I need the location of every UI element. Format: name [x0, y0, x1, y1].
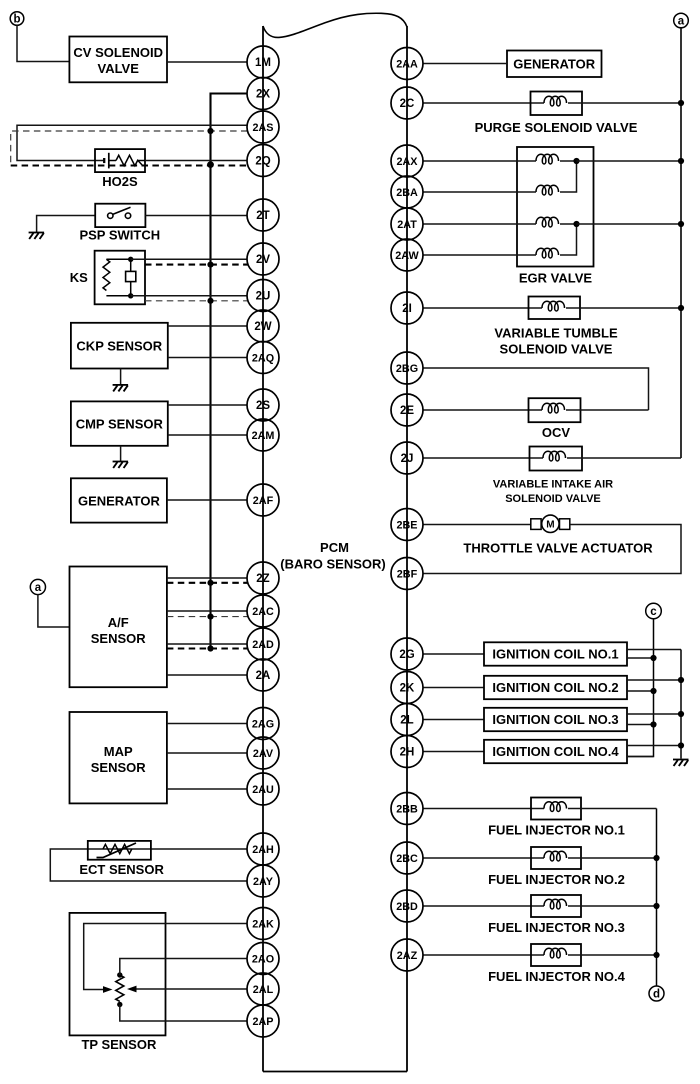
svg-text:2AV: 2AV — [253, 748, 274, 760]
junction: 2Z shield to drain bus — [207, 580, 213, 586]
junction: coil 3 trigger at c rail — [650, 721, 656, 727]
wire a to A/F sensor — [38, 594, 70, 627]
wire CMP to pin 2AM — [168, 434, 248, 436]
svg-text:IGNITION COIL NO.1: IGNITION COIL NO.1 — [492, 647, 618, 662]
wire pin 2AP to TP bottom — [120, 1005, 248, 1022]
component throttle valve actuator (motor M) — [531, 515, 570, 532]
svg-text:2C: 2C — [400, 98, 415, 110]
svg-text:MAP: MAP — [104, 744, 133, 759]
svg-text:IGNITION COIL NO.2: IGNITION COIL NO.2 — [492, 680, 618, 695]
svg-text:2Z: 2Z — [256, 573, 269, 585]
label KS — [70, 270, 88, 285]
component OCV coil — [529, 398, 581, 422]
junction: coil 2 trigger at c rail — [650, 688, 656, 694]
svg-text:2T: 2T — [256, 210, 269, 222]
wire: shield drain bus — [211, 94, 248, 649]
junction: coil 3 supply at ground rail — [678, 711, 684, 717]
component TP SENSOR (potentiometer) — [70, 913, 166, 1036]
svg-text:2AC: 2AC — [252, 606, 274, 618]
pin 2AM — [247, 419, 279, 451]
wire FUEL INJECTOR NO.1 to common rail — [568, 808, 657, 810]
wire pin 2AW to EGR coil 4 — [423, 254, 536, 256]
junction: coil 1 trigger at c rail — [650, 655, 656, 661]
svg-text:TP SENSOR: TP SENSOR — [81, 1037, 157, 1052]
pin 2BB — [391, 793, 423, 825]
junction: variable tumble at far-right feed — [678, 305, 684, 311]
svg-text:2K: 2K — [400, 683, 415, 695]
wire EGR pair2 to far-right feed — [577, 223, 682, 225]
pin 2AU — [247, 773, 279, 805]
pin 2BG — [391, 352, 423, 384]
svg-text:2BB: 2BB — [396, 803, 418, 815]
wire: PCM left connector bus — [262, 26, 264, 1072]
wire pin 2J to variable intake air solenoid — [423, 457, 543, 459]
label TP SENSOR — [81, 1037, 157, 1052]
component GENERATOR (right) — [507, 51, 602, 78]
svg-text:2U: 2U — [256, 291, 271, 303]
pin 2J — [391, 442, 423, 474]
junction: EGR pair2 at far-right feed — [678, 221, 684, 227]
svg-text:SENSOR: SENSOR — [91, 631, 147, 646]
component IGNITION COIL NO.3 — [484, 708, 627, 731]
svg-text:2H: 2H — [400, 747, 415, 759]
label FUEL INJECTOR NO.4 — [488, 969, 626, 984]
label FUEL INJECTOR NO.1 — [488, 823, 625, 838]
wire pin to IGNITION COIL NO.3 — [423, 719, 484, 721]
wire variable tumble solenoid to far-right feed — [566, 307, 681, 309]
pin 2BE — [391, 509, 423, 541]
wire EGR pair1 to far-right feed — [577, 160, 682, 162]
pin 2C — [391, 87, 423, 119]
svg-text:THROTTLE VALVE ACTUATOR: THROTTLE VALVE ACTUATOR — [463, 541, 653, 556]
svg-text:2AD: 2AD — [252, 639, 274, 651]
component HO2S (battery + resistor) — [95, 149, 145, 172]
svg-text:IGNITION COIL NO.3: IGNITION COIL NO.3 — [492, 712, 618, 727]
svg-text:2V: 2V — [256, 254, 270, 266]
wire pin 2BG to OCV return — [423, 368, 649, 410]
wire MAP to pin 2AG — [167, 723, 248, 725]
component EGR VALVE (4 coils) — [517, 147, 594, 267]
svg-text:2AP: 2AP — [252, 1016, 273, 1028]
svg-text:FUEL INJECTOR NO.2: FUEL INJECTOR NO.2 — [488, 872, 625, 887]
ground (CKP sensor) — [113, 385, 129, 392]
wire shield 2AS (dashed) — [11, 131, 248, 166]
svg-text:VARIABLE TUMBLE: VARIABLE TUMBLE — [494, 326, 618, 341]
component CV SOLENOID VALVE — [69, 37, 167, 83]
wire MAP to pin 2AU — [167, 788, 248, 790]
svg-text:2G: 2G — [399, 649, 414, 661]
svg-text:2AZ: 2AZ — [397, 950, 418, 962]
svg-text:2L: 2L — [400, 715, 413, 727]
node c — [646, 603, 662, 619]
junction: coil 4 supply at ground rail — [678, 742, 684, 748]
svg-text:2A: 2A — [256, 670, 271, 682]
svg-text:2AO: 2AO — [252, 953, 274, 965]
wire KS to pin 2U — [131, 295, 248, 297]
wire pin 2E to OCV — [423, 409, 542, 411]
svg-text:2AM: 2AM — [252, 430, 275, 442]
pin 2AC — [247, 595, 279, 627]
pin 2E — [391, 394, 423, 426]
svg-text:2X: 2X — [256, 89, 270, 101]
svg-text:PCM: PCM — [320, 540, 349, 555]
wire pin 2AA to generator — [423, 63, 507, 65]
wire IGNITION COIL NO.2 supply stub — [627, 679, 681, 681]
label ECT SENSOR — [79, 862, 164, 877]
wire EGR coil1/coil2 common — [560, 161, 577, 192]
svg-text:FUEL INJECTOR NO.4: FUEL INJECTOR NO.4 — [488, 969, 626, 984]
svg-text:a: a — [678, 16, 685, 28]
wire purge solenoid to far-right feed — [568, 102, 681, 104]
ground (PSP switch) — [29, 233, 44, 240]
pin 2AT — [391, 208, 423, 240]
wire pin to FUEL INJECTOR NO.2 — [423, 857, 544, 859]
label PURGE SOLENOID VALVE — [475, 120, 638, 135]
svg-text:2J: 2J — [401, 453, 414, 465]
wire FUEL INJECTOR NO.2 to common rail — [568, 857, 657, 859]
svg-text:2BA: 2BA — [396, 187, 418, 199]
ground (ignition coils) — [673, 760, 689, 767]
svg-text:2BE: 2BE — [396, 519, 417, 531]
component purge solenoid coil — [531, 92, 583, 116]
pin 2AP — [247, 1005, 279, 1037]
label VARIABLE INTAKE AIR SOLENOID VALVE — [493, 479, 613, 506]
wire generator to pin 2AF — [167, 499, 248, 501]
wire A/F to pin 2AC — [167, 610, 248, 612]
svg-text:2BC: 2BC — [396, 853, 418, 865]
pin 2BA — [391, 176, 423, 208]
pin 2AF — [247, 484, 279, 516]
svg-text:a: a — [35, 582, 42, 594]
pin 2AK — [247, 908, 279, 940]
arrow into TP resistor (from 2AL) — [127, 986, 137, 993]
pin 2V — [247, 243, 279, 275]
wire IGNITION COIL NO.4 trigger stub — [627, 756, 654, 758]
pin 2AO — [247, 943, 279, 975]
wire pin to FUEL INJECTOR NO.4 — [423, 954, 544, 956]
svg-text:b: b — [13, 14, 20, 26]
svg-text:2AK: 2AK — [252, 918, 274, 930]
wire CKP ground stub — [120, 369, 122, 385]
component ECT SENSOR (thermistor) — [88, 841, 151, 860]
wire HO2S to pin 2Q — [145, 160, 248, 162]
wire fuel injector common rail — [656, 809, 658, 986]
wire throttle actuator loop to pin 2BF — [423, 525, 681, 574]
wire IGNITION COIL NO.3 supply stub — [627, 713, 681, 715]
wire IGNITION COIL NO.4 supply stub — [627, 745, 681, 747]
label PCM (BARO SENSOR) — [280, 540, 385, 572]
wire CKP to pin 2AQ — [168, 357, 248, 359]
junction: 2V shield to drain bus — [207, 262, 213, 268]
wire pin to FUEL INJECTOR NO.1 — [423, 808, 544, 810]
wire: wavy tie line across PCM top — [263, 13, 407, 37]
label EGR VALVE — [519, 271, 593, 286]
svg-text:HO2S: HO2S — [102, 174, 138, 189]
wire A/F shield 2AD (dashed) — [167, 647, 248, 649]
pin 2AG — [247, 708, 279, 740]
component FUEL INJECTOR NO.1 coil — [531, 798, 581, 820]
wire pin 2I to variable tumble solenoid — [423, 307, 542, 309]
wire 2AS loop to HO2S — [17, 125, 248, 160]
svg-text:VALVE: VALVE — [97, 61, 139, 76]
svg-text:1M: 1M — [255, 57, 271, 69]
pin 2AV — [247, 737, 279, 769]
pin 2Q — [247, 145, 279, 177]
component CKP SENSOR — [71, 323, 168, 369]
svg-text:d: d — [653, 989, 660, 1001]
label PSP SWITCH — [79, 228, 160, 243]
component MAP SENSOR — [70, 712, 167, 803]
svg-text:2BD: 2BD — [396, 901, 418, 913]
wire pin 2BE to throttle actuator — [423, 524, 531, 526]
pin 2I — [391, 292, 423, 324]
svg-text:2AA: 2AA — [396, 58, 418, 70]
wire A/F to pin 2AD — [167, 643, 248, 645]
label VARIABLE TUMBLE SOLENOID VALVE — [494, 326, 618, 357]
junction: 2U shield to drain bus — [207, 298, 213, 304]
wire pin to IGNITION COIL NO.1 — [423, 653, 484, 655]
pin 2X — [247, 78, 279, 110]
wire pin 2AO to TP top — [120, 959, 248, 976]
wire pin 2AX to EGR coil 1 — [423, 160, 536, 162]
svg-text:2I: 2I — [402, 303, 412, 315]
component variable intake air solenoid coil — [530, 447, 583, 471]
svg-text:EGR VALVE: EGR VALVE — [519, 271, 593, 286]
wire CMP ground stub — [120, 446, 122, 462]
svg-text:A/F: A/F — [108, 615, 129, 630]
svg-text:2BF: 2BF — [397, 568, 418, 580]
svg-text:2AX: 2AX — [396, 156, 418, 168]
pin 2AD — [247, 628, 279, 660]
svg-text:c: c — [650, 606, 657, 618]
pin 2AY — [247, 865, 279, 897]
wire CKP to pin 2W — [168, 325, 248, 327]
wire ECT loop 2AH/2AY — [50, 849, 247, 881]
svg-text:VARIABLE INTAKE AIR: VARIABLE INTAKE AIR — [493, 479, 613, 491]
wire: bottom link between connector buses — [263, 1071, 407, 1073]
wire A/F to pin 2Z — [167, 577, 248, 579]
pin 2AA — [391, 48, 423, 80]
component A/F SENSOR — [70, 567, 167, 688]
node d — [649, 986, 664, 1001]
svg-text:2AF: 2AF — [253, 495, 274, 507]
wire A/F shield 2AC (dashed) — [167, 616, 248, 618]
svg-text:2AH: 2AH — [252, 844, 274, 856]
wire CMP to pin 2S — [168, 404, 248, 406]
component CMP SENSOR — [71, 401, 168, 445]
wire A/F shield 2Z (dashed) — [167, 582, 248, 584]
wire KS to pin 2V — [131, 258, 248, 260]
pin 2AL — [247, 973, 279, 1005]
wire ground to PSP switch — [37, 216, 96, 233]
svg-text:CV SOLENOID: CV SOLENOID — [73, 45, 163, 60]
svg-text:2AU: 2AU — [252, 784, 274, 796]
component GENERATOR (left) — [71, 478, 167, 522]
svg-text:2E: 2E — [400, 405, 414, 417]
svg-text:ECT SENSOR: ECT SENSOR — [79, 862, 164, 877]
svg-text:SOLENOID VALVE: SOLENOID VALVE — [505, 493, 601, 505]
component FUEL INJECTOR NO.4 coil — [531, 944, 581, 966]
junction: EGR pair1 at far-right feed — [678, 158, 684, 164]
component FUEL INJECTOR NO.3 coil — [531, 895, 581, 917]
wire ignition ground rail — [680, 650, 682, 759]
wire IGNITION COIL NO.1 supply stub — [627, 649, 681, 651]
svg-text:FUEL INJECTOR NO.1: FUEL INJECTOR NO.1 — [488, 823, 625, 838]
wire pin 2AK to TP wiper (left arrow) — [84, 924, 248, 990]
svg-text:2Q: 2Q — [255, 156, 270, 168]
wire pin 2AT to EGR coil 3 — [423, 223, 536, 225]
pin 2S — [247, 389, 279, 421]
svg-text:2AW: 2AW — [395, 250, 419, 262]
pin 2AS — [247, 111, 279, 143]
junction: shield to drain bus at 2Q — [207, 161, 214, 168]
node a (left) — [30, 579, 45, 594]
svg-text:FUEL INJECTOR NO.3: FUEL INJECTOR NO.3 — [488, 920, 625, 935]
pin 2AH — [247, 833, 279, 865]
junction: 2AD shield to drain bus end — [207, 645, 213, 651]
node b — [10, 12, 24, 26]
wire ignition common from c — [627, 619, 654, 757]
svg-text:2AT: 2AT — [397, 219, 417, 231]
svg-text:(BARO SENSOR): (BARO SENSOR) — [280, 557, 385, 572]
pin 2G — [391, 638, 423, 670]
wire CV solenoid valve to pin 1M — [167, 61, 248, 63]
svg-text:2AG: 2AG — [252, 718, 274, 730]
pin 2BD — [391, 890, 423, 922]
svg-text:2AQ: 2AQ — [252, 352, 274, 364]
junction: injector 4 at common rail — [653, 952, 659, 958]
wire FUEL INJECTOR NO.4 to common rail — [568, 954, 657, 956]
label FUEL INJECTOR NO.2 — [488, 872, 625, 887]
component IGNITION COIL NO.1 — [484, 642, 627, 665]
wire pin to IGNITION COIL NO.4 — [423, 751, 484, 753]
component IGNITION COIL NO.2 — [484, 676, 627, 699]
wire KS shield 2U (dashed) — [145, 300, 248, 302]
wire IGNITION COIL NO.1 trigger stub — [627, 657, 654, 659]
junction: coil 2 supply at ground rail — [678, 677, 684, 683]
wire pin to FUEL INJECTOR NO.3 — [423, 905, 544, 907]
junction: purge at far-right feed — [678, 100, 684, 106]
pin 2AX — [391, 145, 423, 177]
pin 2H — [391, 736, 423, 768]
wire far-right feed from a — [680, 28, 682, 458]
wire KS shield 2V (dashed) — [145, 264, 248, 266]
wire A/F to pin 2A — [167, 674, 248, 676]
wire IGNITION COIL NO.3 trigger stub — [627, 724, 654, 726]
wire pin 2C to purge solenoid — [423, 102, 544, 104]
wire OCV to 2BG riser — [566, 409, 649, 411]
pin 2T — [247, 199, 279, 231]
svg-text:CKP SENSOR: CKP SENSOR — [76, 339, 162, 354]
node a (top right) — [674, 13, 689, 28]
wire MAP to pin 2AV — [167, 752, 248, 754]
svg-text:2S: 2S — [256, 400, 270, 412]
pin 2K — [391, 672, 423, 704]
wire pin 2BA to EGR coil 2 — [423, 191, 536, 193]
pin 2AZ — [391, 939, 423, 971]
label HO2S — [102, 174, 138, 189]
svg-text:PSP SWITCH: PSP SWITCH — [79, 228, 160, 243]
label FUEL INJECTOR NO.3 — [488, 920, 625, 935]
svg-text:2AY: 2AY — [253, 876, 274, 888]
wire pin to IGNITION COIL NO.2 — [423, 687, 484, 689]
svg-text:KS: KS — [70, 270, 88, 285]
wire EGR coil3/coil4 common — [560, 224, 577, 255]
pin 2Z — [247, 562, 279, 594]
wire shield 2Q (dashed) — [11, 164, 248, 166]
pin 2BC — [391, 842, 423, 874]
pin 2L — [391, 704, 423, 736]
wire FUEL INJECTOR NO.3 to common rail — [568, 905, 657, 907]
svg-text:SENSOR: SENSOR — [91, 760, 147, 775]
component KS knock sensor — [95, 251, 145, 305]
svg-text:PURGE SOLENOID VALVE: PURGE SOLENOID VALVE — [475, 120, 638, 135]
svg-text:IGNITION COIL NO.4: IGNITION COIL NO.4 — [492, 744, 619, 759]
pin 2A — [247, 659, 279, 691]
junction EGR pair 1 — [573, 158, 579, 164]
label THROTTLE VALVE ACTUATOR — [463, 541, 653, 556]
label OCV — [542, 425, 571, 440]
junction: injector 2 at common rail — [653, 855, 659, 861]
junction EGR pair 2 — [573, 221, 579, 227]
component IGNITION COIL NO.4 — [484, 740, 627, 763]
svg-text:2BG: 2BG — [396, 363, 418, 375]
pin 1M — [247, 46, 279, 78]
wire variable intake air solenoid to far-right feed end — [567, 457, 681, 459]
svg-text:GENERATOR: GENERATOR — [78, 494, 160, 509]
ground (CMP sensor) — [113, 462, 129, 469]
wire pin 2AL to TP wiper (right arrow) — [136, 988, 248, 990]
pin 2BF — [391, 558, 423, 590]
wire PSP switch to pin 2T — [145, 215, 247, 217]
svg-text:2W: 2W — [254, 321, 271, 333]
pin 2U — [247, 280, 279, 312]
pin 2AQ — [247, 342, 279, 374]
component PSP SWITCH — [95, 204, 145, 227]
pin 2W — [247, 310, 279, 342]
arrow into TP resistor (from 2AK) — [103, 986, 113, 993]
svg-text:GENERATOR: GENERATOR — [513, 56, 595, 71]
pin 2AW — [391, 239, 423, 271]
wire b to CV solenoid valve — [17, 25, 69, 61]
junction: 2AC shield to drain bus — [207, 614, 213, 620]
svg-text:2AL: 2AL — [253, 984, 274, 996]
svg-text:2AS: 2AS — [252, 122, 273, 134]
component variable tumble solenoid coil — [529, 297, 581, 320]
svg-text:OCV: OCV — [542, 425, 571, 440]
svg-text:SOLENOID VALVE: SOLENOID VALVE — [500, 342, 613, 357]
svg-text:CMP SENSOR: CMP SENSOR — [76, 417, 164, 432]
component FUEL INJECTOR NO.2 coil — [531, 847, 581, 869]
svg-text:M: M — [546, 520, 554, 531]
junction: injector 3 at common rail — [653, 903, 659, 909]
wire IGNITION COIL NO.2 trigger stub — [627, 690, 654, 692]
junction: shield to drain bus at 2AS — [207, 128, 213, 134]
wire: PCM right connector bus — [406, 26, 408, 1072]
